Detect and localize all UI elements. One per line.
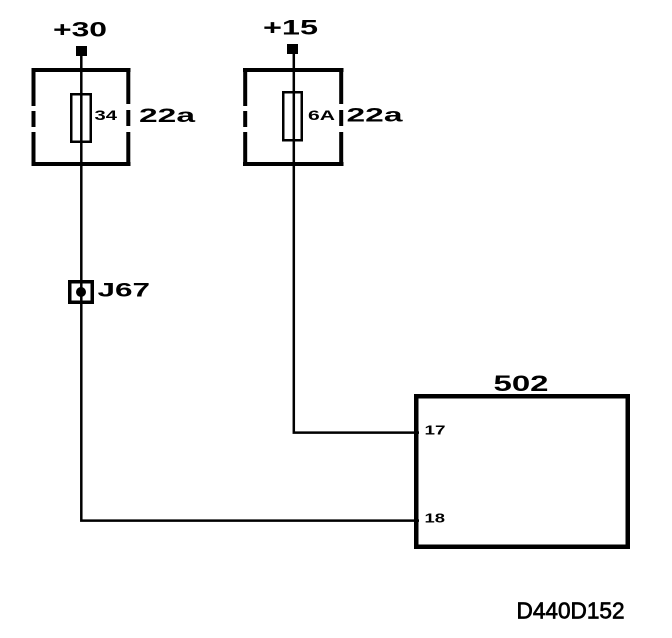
svg-text:+30: +30 (53, 19, 107, 42)
svg-text:502: 502 (494, 371, 549, 396)
svg-text:J67: J67 (98, 281, 151, 302)
svg-text:22a: 22a (139, 106, 196, 127)
svg-text:6A: 6A (308, 107, 335, 123)
svg-text:17: 17 (425, 424, 446, 438)
svg-text:+15: +15 (263, 17, 318, 40)
svg-text:22a: 22a (347, 105, 404, 126)
svg-text:18: 18 (425, 512, 446, 526)
svg-text:34: 34 (95, 108, 118, 123)
svg-text:D440D152: D440D152 (517, 598, 625, 624)
